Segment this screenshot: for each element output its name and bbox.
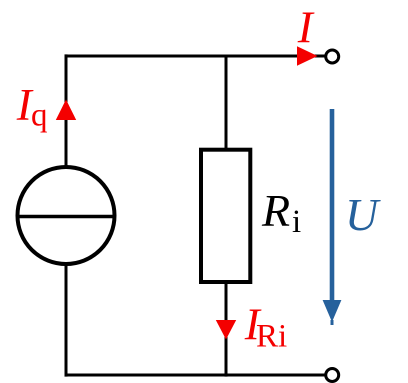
resistor R_i (body) (201, 150, 250, 282)
svg-text:U: U (345, 189, 381, 240)
svg-text:I: I (297, 3, 315, 53)
terminal bottom-right (open circle) (326, 369, 339, 382)
wire left upper (top node down to source) (65, 54, 68, 168)
current source bar (19, 215, 113, 219)
svg-text:q: q (31, 98, 48, 134)
svg-text:i: i (292, 204, 301, 240)
current source I_q (circle) (18, 167, 115, 264)
wire below resistor (225, 282, 228, 377)
wire middle branch (top wire to resistor) (225, 56, 228, 150)
svg-text:Ri: Ri (256, 319, 287, 355)
arrow U (voltage, down, blue) (323, 109, 342, 325)
terminal top-right (open circle) (326, 50, 339, 63)
arrow I (current, right) (297, 46, 318, 66)
svg-text:R: R (261, 185, 290, 236)
arrow I_Ri (current, down) (216, 320, 236, 340)
wire bottom (66, 374, 326, 377)
wire left lower (source to bottom node) (65, 263, 68, 377)
wire top (node a to terminal) (66, 55, 325, 58)
arrow I_q (current, up) (56, 100, 76, 121)
